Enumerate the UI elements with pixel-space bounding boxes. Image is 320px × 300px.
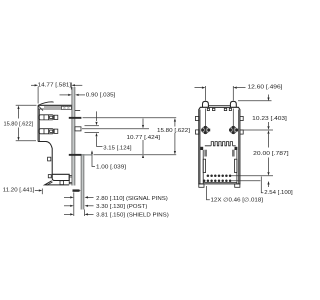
mounting posts (rounded tabs on top) <box>203 101 237 107</box>
svg-text:12.60 [.496]: 12.60 [.496] <box>248 85 284 91</box>
slot row 1 <box>39 115 58 120</box>
latch lip arc <box>38 102 54 106</box>
screw cross right <box>229 109 238 135</box>
3.30 post <box>64 205 70 207</box>
cavity walls <box>203 150 237 184</box>
dim 11.20 [.441] lower width <box>3 188 43 195</box>
pin row extensions <box>231 175 273 177</box>
svg-text:2.80 [.110] (SIGNAL PINS): 2.80 [.110] (SIGNAL PINS) <box>96 196 168 202</box>
dim 2.54 [.100] <box>261 177 293 197</box>
short ext line SL1 <box>85 125 100 127</box>
side tabs <box>196 116 244 134</box>
mounting foot: rounded slot <box>48 174 69 180</box>
lower board B (gray) <box>81 154 84 210</box>
hatched vent rectangle on top wall <box>62 106 72 109</box>
vertical panel (gray board A) <box>72 87 75 186</box>
cavity corner blocks <box>200 147 237 150</box>
svg-text:2.54 [.100]: 2.54 [.100] <box>264 190 293 196</box>
svg-text:14.77 [.581]: 14.77 [.581] <box>38 83 72 89</box>
dim 10.23 [.403] <box>252 95 287 130</box>
svg-text:1.00 [.039]: 1.00 [.039] <box>96 164 127 170</box>
pin row 1 (7 pins) <box>207 175 232 178</box>
signal pin (middle, through panel) <box>69 154 93 156</box>
svg-text:20.00 [.787]: 20.00 [.787] <box>253 151 289 157</box>
shield pin (top, through panel) <box>69 117 82 119</box>
dim 15.80 [.622] middle <box>157 118 190 154</box>
svg-text:3.15 [.124]: 3.15 [.124] <box>103 145 132 151</box>
dim 14.77 [.581] top <box>31 83 82 104</box>
slot row 2 <box>39 129 58 134</box>
pin row 2 (8 pins) <box>203 179 231 182</box>
dim 15.80 [.622] left height <box>4 105 37 141</box>
dim 0.90 [.035] panel thickness <box>60 92 116 98</box>
extension line L2 <box>82 128 149 130</box>
dim 20.00 [.787] <box>253 130 289 175</box>
svg-text:3.30 [.130] (POST): 3.30 [.130] (POST) <box>96 204 147 210</box>
body outline <box>199 106 240 184</box>
bracket rect right of panel <box>75 127 81 131</box>
small pin stub <box>75 110 80 112</box>
3.81 shield pins <box>64 213 70 215</box>
bottom pin (between panels) <box>73 189 80 191</box>
svg-text:15.80 [.622]: 15.80 [.622] <box>4 121 34 127</box>
arrow at bottom pin pointing right <box>78 190 81 192</box>
contact comb teeth <box>205 142 236 146</box>
2.80 signal pins <box>64 196 70 198</box>
bottom pin-length dimensions <box>64 192 169 218</box>
svg-text:10.23 [.403]: 10.23 [.403] <box>252 116 287 122</box>
extension line L3 (signal pin row) <box>94 154 177 156</box>
svg-text:12X ∅0.46 [∅.018]: 12X ∅0.46 [∅.018] <box>211 197 264 204</box>
bottom-left step and sloped wall <box>38 142 52 175</box>
body outer outline <box>38 104 72 106</box>
foot chamfer + bottom <box>45 181 69 186</box>
small post notch under foot <box>60 181 63 185</box>
leader for 12X pins <box>207 186 264 204</box>
cross centerline extension <box>241 129 274 131</box>
dim 1.00 [.039] <box>91 150 127 170</box>
svg-text:15.80 [.622]: 15.80 [.622] <box>157 128 190 134</box>
svg-text:0.90 [.035]: 0.90 [.035] <box>86 92 116 98</box>
bottom feet <box>199 184 240 187</box>
screw cross left <box>201 109 210 135</box>
foot right block <box>69 176 74 184</box>
dim 12.60 [.496] <box>195 85 284 101</box>
square hole in sloped wall <box>48 157 51 161</box>
inner top line <box>44 106 63 108</box>
short ext line SL2 <box>85 132 100 134</box>
top small holes <box>207 108 231 110</box>
post top extension line <box>238 100 272 102</box>
svg-text:3.81 [.150] (SHIELD PINS): 3.81 [.150] (SHIELD PINS) <box>96 213 169 219</box>
svg-text:11.20 [.441]: 11.20 [.441] <box>3 188 35 194</box>
extension line L1 (shield pin row) <box>83 117 177 119</box>
svg-text:10.77 [.424]: 10.77 [.424] <box>127 135 161 141</box>
connector body outline (side view) <box>38 102 72 175</box>
dim 10.77 [.424] <box>127 119 161 159</box>
dim 3.15 [.124] <box>95 111 132 151</box>
